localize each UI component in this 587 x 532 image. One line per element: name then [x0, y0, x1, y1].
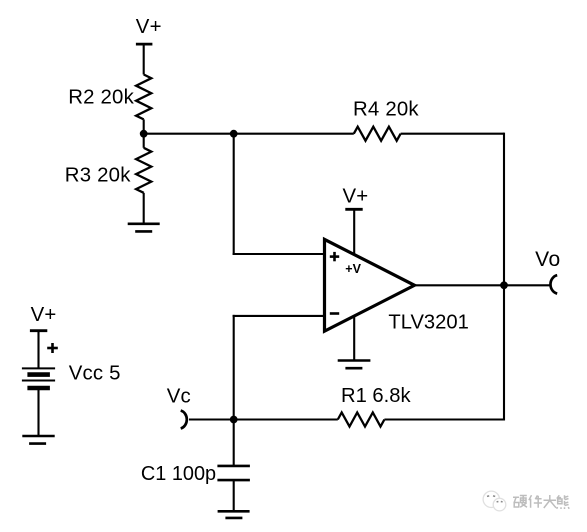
svg-text:R3 20k: R3 20k: [65, 165, 131, 187]
power V+ bar (battery): [30, 329, 47, 332]
svg-text:TLV3201: TLV3201: [388, 311, 468, 333]
resistor R2: [136, 75, 151, 120]
wire minus input down to node C: [233, 315, 235, 420]
svg-text:R1 6.8k: R1 6.8k: [341, 385, 411, 407]
resistor R4: [354, 127, 401, 141]
ground (below R3): [128, 223, 160, 226]
op-amp minus sign: [330, 312, 339, 315]
wire top rail: node A to R4: [144, 133, 354, 135]
op-amp plus sign: [330, 255, 339, 258]
op-amp U1 triangle: [325, 239, 415, 331]
char 硬: [513, 496, 527, 508]
power V+ bar (top left): [136, 43, 153, 46]
wire R1 corner to R1: [384, 418, 505, 420]
ground (battery): [22, 435, 54, 438]
wire op-amp bottom pin to ground: [353, 314, 355, 361]
svg-text:C1 100p: C1 100p: [141, 463, 216, 485]
capacitor C1 top plate: [217, 465, 250, 468]
wire node B down to plus input: [233, 134, 235, 255]
wire node C down to C1: [233, 420, 235, 466]
terminal Vo arc: [550, 275, 557, 293]
wire V+ bar to battery: [37, 331, 39, 369]
wire supply bar to op-amp +v pin: [353, 209, 355, 255]
node C junction dot (Vc / C1 / R1 / minus input): [230, 416, 238, 424]
node B junction dot (feedback tap): [230, 130, 238, 138]
battery plus sign: [47, 347, 58, 350]
wire C1 to ground: [233, 480, 235, 511]
terminal Vc arc: [181, 411, 187, 429]
svg-text:Vo: Vo: [535, 248, 561, 271]
node D junction dot (output): [500, 281, 508, 289]
battery V1 plates: [22, 367, 55, 369]
wire op-amp output to Vo: [415, 284, 550, 286]
power V+ bar (op-amp supply): [345, 208, 362, 211]
svg-text:R4 20k: R4 20k: [353, 98, 419, 120]
char 熊: [557, 495, 569, 509]
wire minus input into op-amp: [233, 315, 325, 317]
svg-text:Vc: Vc: [167, 386, 191, 408]
watermark text 硬件大熊 (drawn strokes): [513, 495, 569, 509]
svg-text:R2 20k: R2 20k: [68, 87, 134, 109]
svg-text:V+: V+: [136, 16, 162, 38]
resistor R3: [143, 134, 145, 148]
node A junction dot (R2/R3 divider): [140, 130, 148, 138]
ground (op-amp): [338, 359, 371, 362]
resistor R1: [338, 413, 385, 427]
char 件: [529, 495, 542, 508]
wire node C to Vc terminal: [189, 418, 234, 420]
svg-text:Vcc 5: Vcc 5: [69, 362, 121, 384]
wire R4 to right rail corner: [401, 133, 504, 135]
ground (below C1): [218, 510, 250, 513]
wire V+ bar to R2: [143, 44, 145, 74]
watermark bear icon: [483, 491, 506, 511]
wire R1 to node C: [234, 418, 338, 420]
wire R2 to node A: [143, 119, 145, 133]
wire R3 to ground: [143, 193, 145, 224]
wire plus input into op-amp: [233, 253, 325, 255]
svg-text:V+: V+: [343, 185, 369, 207]
wire right rail down to output node: [503, 133, 505, 286]
char 大: [544, 495, 557, 508]
svg-text:+V: +V: [345, 262, 361, 276]
wire battery to ground: [37, 388, 39, 436]
wire right rail output node down to R1 corner: [503, 285, 505, 420]
capacitor C1 bottom plate: [217, 479, 250, 482]
svg-text:V+: V+: [31, 304, 57, 326]
